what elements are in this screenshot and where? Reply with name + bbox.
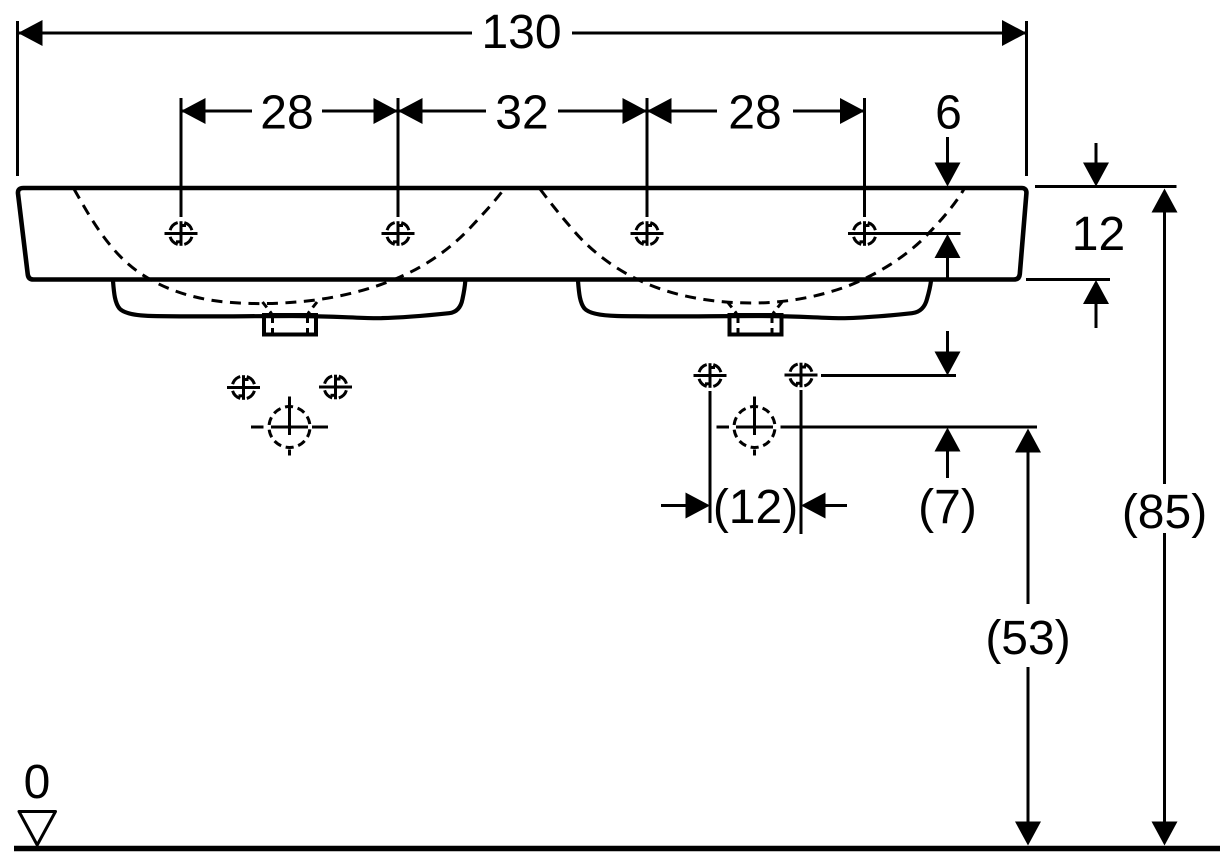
sink body outline [18, 188, 1026, 280]
arrowhead pair at hole2 [374, 98, 423, 124]
faucet hole 4 [848, 221, 881, 246]
basin outline right (dashed) [540, 189, 964, 303]
arrowhead (12) pointing right [686, 493, 711, 519]
arrowhead 28 left [181, 98, 206, 124]
svg-text:(53): (53) [985, 612, 1070, 665]
wire: extension line mounting right A [709, 391, 712, 523]
dimension 12 lower: right tail [826, 504, 848, 507]
arrowhead 28 right end [840, 98, 865, 124]
apron under left basin [113, 281, 465, 318]
faucet hole 2 [382, 221, 415, 246]
svg-text:32: 32 [495, 87, 548, 140]
wire: basin bottom edge extended right [1026, 278, 1110, 281]
svg-text:28: 28 [728, 87, 781, 140]
wire: hole4 centerline extended right [881, 232, 961, 235]
arrowhead 7 up to waste centerline [935, 428, 961, 452]
arrowhead 7 down to mounting centerline [935, 352, 961, 376]
wire: extension line right of 130 [1025, 21, 1028, 176]
wire: extension line hole4 [863, 98, 866, 217]
drain box right [730, 315, 782, 335]
waste hole right (dashed circle) [717, 397, 776, 456]
svg-text:(7): (7) [918, 481, 977, 534]
dimension line 32 [398, 110, 647, 113]
svg-text:130: 130 [481, 6, 561, 59]
wire: extension line left of 130 [16, 21, 19, 176]
dimension 12 right: tail above [1095, 143, 1098, 163]
arrowhead 12 up to basin bottom [1083, 280, 1109, 304]
dimension 7: tail above mounting centerline [946, 331, 949, 352]
dimension 12 right: tail below [1095, 304, 1098, 328]
faucet hole 3 [631, 221, 664, 246]
arrowhead (12) pointing left [801, 493, 826, 519]
arrowhead 12 down to basin top [1083, 163, 1109, 187]
dimension line 130 [18, 32, 1026, 35]
faucet hole 1 [165, 221, 198, 246]
mounting hole left A [227, 375, 260, 400]
arrowhead 6 up to hole centerline [935, 234, 961, 258]
wire: extension line hole3 [646, 98, 649, 217]
arrowhead (53) up to waste centerline [1015, 429, 1041, 453]
waste hole left (dashed circle) [251, 397, 328, 456]
dimension 6: tail above basin top [946, 137, 949, 163]
basin outline left (dashed) [74, 189, 504, 304]
wire: tail below waste centerline [946, 452, 949, 479]
arrowhead 130 left [18, 20, 43, 46]
arrowhead 6 down to basin top [935, 163, 961, 187]
mounting hole right B [785, 363, 818, 388]
svg-text:(12): (12) [713, 481, 798, 534]
wire: extension line hole1 [180, 98, 183, 217]
datum triangle [19, 812, 56, 846]
drain funnel right (dashed) [728, 302, 783, 334]
arrowhead pair at hole3 [623, 98, 672, 124]
wire: mounting holes centerline extended right [821, 374, 956, 377]
arrowhead (85) down to floor [1152, 822, 1178, 846]
mounting hole left B [319, 375, 352, 400]
wire: tail below hole centerline [946, 258, 949, 279]
arrowhead (85) up to basin top [1152, 189, 1178, 213]
dimension line 28 right [647, 110, 864, 113]
wire: extension line mounting right B [800, 390, 803, 534]
svg-text:28: 28 [260, 87, 313, 140]
mounting hole right A [694, 363, 727, 388]
svg-text:12: 12 [1072, 208, 1125, 261]
dimension line (53) upper [1027, 452, 1030, 604]
dimension 12 lower: left tail [661, 504, 686, 507]
wire: basin top edge extended right [1035, 185, 1177, 188]
drain funnel left (dashed) [263, 302, 318, 334]
svg-text:0: 0 [24, 756, 51, 809]
apron under right basin [578, 281, 931, 318]
arrowhead (53) down to floor [1015, 822, 1041, 846]
dimension line 28 left [181, 110, 398, 113]
arrowhead 130 right [1002, 20, 1027, 46]
floor line [14, 846, 1220, 852]
wire: waste hole centerline extended right [781, 426, 1038, 429]
dimension line (53) lower [1027, 667, 1030, 822]
svg-text:(85): (85) [1122, 486, 1207, 539]
svg-text:6: 6 [935, 87, 962, 140]
wire: extension line hole2 [397, 98, 400, 217]
drain box left [264, 315, 316, 335]
dimension line (85) lower [1163, 533, 1166, 822]
dimension line (85) upper [1163, 212, 1166, 484]
